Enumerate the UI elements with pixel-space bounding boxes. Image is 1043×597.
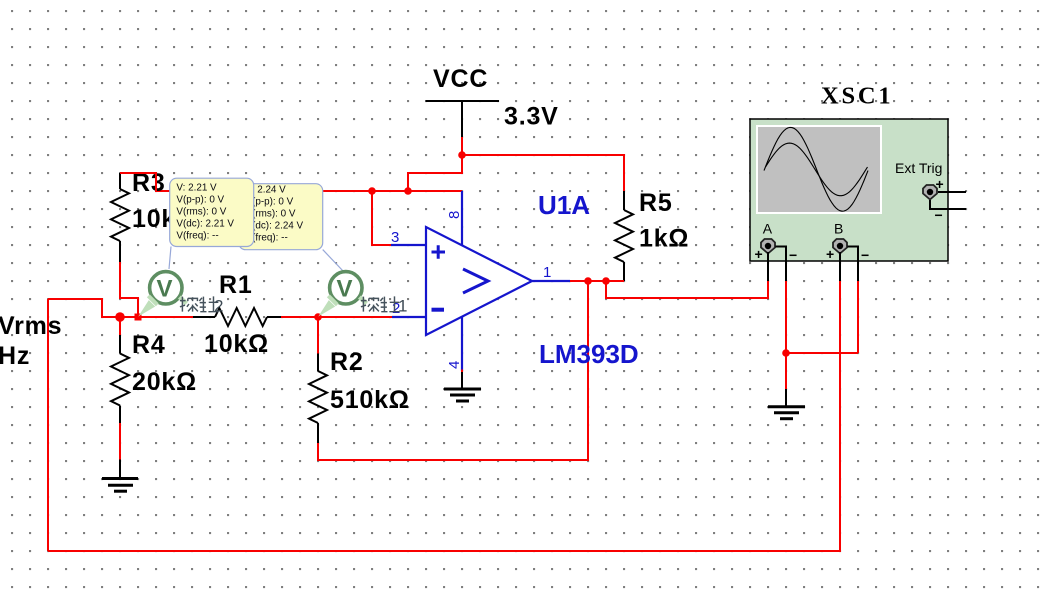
plus mark in op-amp — [432, 245, 446, 258]
wire R3 bottom to divider node — [120, 262, 138, 317]
resistor R4 — [119, 317, 121, 335]
ground under scope — [768, 389, 805, 419]
resistor R5 — [615, 191, 633, 281]
svg-text:LM393D: LM393D — [539, 339, 639, 369]
wire output node — [570, 280, 624, 282]
node output junction feedback — [584, 277, 592, 285]
power symbol VCC — [426, 101, 500, 137]
resistor R1 — [193, 308, 281, 326]
svg-text:Vrms: Vrms — [0, 312, 62, 340]
wire B plus stub — [839, 252, 841, 281]
node divider junction — [115, 312, 125, 322]
wire rail y191 from R3 corner to pin8 — [120, 173, 462, 191]
scope trace A — [764, 127, 868, 211]
svg-text:−: − — [789, 247, 797, 263]
pin 2 stub — [392, 316, 426, 318]
wire VCC junction down-left to +rail — [408, 155, 462, 191]
node probe2 junction — [135, 314, 142, 321]
wire R4 bottom to ground — [119, 423, 121, 460]
wire A plus stub — [767, 252, 769, 281]
node pin2 junction — [314, 313, 322, 321]
measurement tooltip box 2 — [239, 184, 323, 250]
probe leader line 2 — [323, 250, 344, 272]
wire junction 372 down to pin 3 — [372, 191, 391, 245]
probe 2 name — [180, 296, 219, 311]
svg-text:1: 1 — [398, 297, 407, 316]
pin 8 stub — [461, 191, 463, 246]
node rail junction at 408 — [404, 187, 412, 195]
wire R1 right to pin2 node — [281, 316, 392, 318]
wire source to divider node — [48, 299, 120, 317]
node output junction scope — [602, 277, 610, 285]
wire B minus stub — [848, 247, 859, 282]
resistor R2 — [317, 317, 319, 354]
oscilloscope screen — [756, 125, 882, 214]
wire R2 bottom feedback to output — [318, 281, 588, 460]
ground under op-amp pin 4 — [461, 370, 463, 373]
svg-text:4: 4 — [446, 361, 463, 369]
svg-text:Hz: Hz — [0, 342, 30, 370]
svg-text:XSC1: XSC1 — [821, 83, 893, 110]
svg-text:V: V — [337, 276, 353, 303]
ground under R4 — [102, 460, 138, 492]
svg-text:B: B — [834, 221, 843, 237]
wire A minus to ground net — [785, 281, 787, 389]
probe 1 (voltage probe) — [318, 272, 366, 317]
wire ext trig plus stub — [938, 191, 966, 193]
svg-text:8: 8 — [446, 211, 463, 219]
svg-text:20kΩ: 20kΩ — [132, 368, 197, 396]
wire VCC pin to junction — [461, 137, 463, 155]
node scope ground junction — [782, 349, 790, 357]
wire A minus stub — [776, 247, 787, 282]
wire output to scope A — [606, 281, 768, 298]
channel A connector — [761, 239, 775, 254]
wire source down left side — [47, 299, 49, 551]
probe 2 (voltage probe) — [138, 272, 186, 317]
svg-text:R2: R2 — [330, 348, 364, 376]
svg-text:3: 3 — [391, 229, 399, 246]
svg-text:1kΩ: 1kΩ — [639, 225, 689, 253]
wire B minus down — [857, 281, 859, 353]
svg-text:V(dc): 2.21 V: V(dc): 2.21 V — [176, 219, 234, 230]
svg-text:3.3V: 3.3V — [504, 103, 559, 131]
svg-text:−: − — [861, 247, 869, 263]
wire divider node to R1 left — [120, 316, 193, 318]
pin 3 stub — [391, 244, 426, 246]
svg-text:1: 1 — [543, 264, 551, 281]
minus mark in op-amp — [432, 308, 445, 312]
wire VCC junction to R5 top — [462, 155, 624, 191]
svg-text:A: A — [763, 221, 773, 237]
wire bottom run to scope B+ — [48, 281, 840, 551]
node rail junction at 372 — [368, 187, 376, 195]
pin 1 output stub — [532, 280, 570, 282]
wire ground junction to B minus — [786, 352, 858, 354]
svg-text:R4: R4 — [132, 331, 166, 359]
pin 4 stub — [461, 317, 463, 372]
svg-text:V(p-p): 0 V: V(p-p): 0 V — [176, 194, 224, 205]
svg-text:V: V — [157, 276, 173, 303]
measurement tooltip box 1 — [170, 178, 254, 246]
op-amp U1A comparator — [391, 191, 570, 371]
svg-text:U1A: U1A — [538, 190, 590, 220]
probe 1 name — [361, 296, 400, 311]
node VCC junction — [458, 151, 466, 159]
wire over R3 label — [120, 173, 156, 191]
svg-text:R5: R5 — [639, 189, 673, 217]
channel B connector — [833, 239, 847, 254]
svg-text:VCC: VCC — [433, 65, 488, 93]
resistor R3 — [111, 173, 129, 262]
svg-text:10kΩ: 10kΩ — [204, 330, 269, 358]
oscilloscope XSC1 body — [750, 119, 948, 261]
svg-text:V(freq): --: V(freq): -- — [176, 231, 218, 242]
comparator symbol — [463, 269, 488, 293]
ext trig connector — [923, 185, 937, 200]
wire ext trig minus stub — [930, 200, 966, 209]
svg-text:Ext Trig: Ext Trig — [895, 160, 942, 176]
svg-text:510kΩ: 510kΩ — [330, 386, 410, 414]
probe leader line 1 — [169, 247, 171, 270]
svg-text:R1: R1 — [219, 271, 253, 299]
svg-text:V(rms): 0 V: V(rms): 0 V — [176, 206, 226, 217]
svg-text:V: 2.21 V: V: 2.21 V — [176, 182, 217, 193]
scope trace B — [766, 143, 868, 196]
svg-text:2: 2 — [214, 297, 223, 316]
